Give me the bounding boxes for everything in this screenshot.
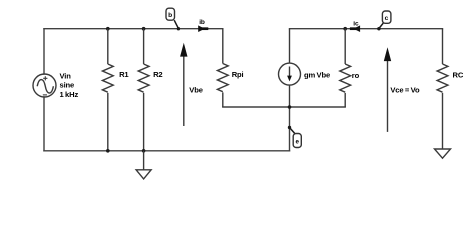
wire Vin bottom lead	[43, 97, 45, 151]
svg-text:Vin: Vin	[60, 72, 72, 81]
svg-text:R1: R1	[119, 70, 129, 79]
svg-text:Rpi: Rpi	[232, 70, 244, 79]
svg-text:Vbe: Vbe	[189, 85, 202, 94]
svg-text:ro: ro	[352, 71, 360, 80]
current arrow ic	[350, 20, 360, 32]
junction G1 bottom	[288, 105, 292, 109]
resistor RC	[437, 29, 448, 149]
svg-text:R2: R2	[153, 70, 162, 79]
ground GND2	[435, 149, 451, 158]
voltage arrow Vce	[384, 47, 420, 132]
wire top-right rail	[290, 28, 443, 30]
svg-text:RC: RC	[453, 70, 464, 79]
ground GND1	[136, 151, 151, 179]
junction R2 bottom	[142, 149, 146, 153]
junction ro top	[343, 27, 347, 31]
svg-text:c: c	[385, 15, 389, 22]
label Vin sine 1kHz	[60, 72, 79, 99]
resistor Rpi	[217, 29, 228, 107]
svg-text:sine: sine	[60, 81, 75, 90]
wire middle bottom rail	[223, 106, 345, 108]
wire top-left rail	[44, 28, 223, 30]
voltage source Vin	[33, 74, 56, 97]
svg-text:1 kHz: 1 kHz	[60, 90, 79, 99]
svg-text:ic: ic	[353, 20, 359, 27]
resistor R2	[138, 29, 149, 151]
svg-text:Vce = Vo: Vce = Vo	[390, 85, 420, 94]
svg-text:gm Vbe: gm Vbe	[304, 71, 330, 80]
voltage arrow Vbe	[180, 43, 203, 126]
resistor R1	[102, 29, 113, 151]
svg-text:b: b	[168, 12, 172, 19]
node b label	[166, 8, 180, 30]
current arrow ib	[198, 19, 208, 32]
node e label	[288, 126, 302, 148]
resistor ro	[340, 29, 351, 107]
svg-text:ib: ib	[199, 19, 205, 26]
node c label	[377, 11, 391, 30]
junction R1 bottom	[106, 149, 110, 153]
wire emitter drop	[289, 107, 291, 151]
junction R1 top	[106, 27, 110, 31]
wire Vin top lead	[43, 29, 45, 74]
junction R2 top	[142, 27, 146, 31]
wire bottom rail	[44, 150, 290, 152]
current source G1 gm Vbe	[279, 29, 301, 107]
